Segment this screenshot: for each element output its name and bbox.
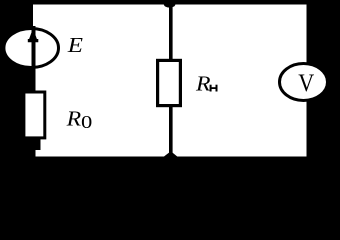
resistor R0 — [24, 92, 45, 138]
wire left branch (through E, down to bottom) — [32, 26, 36, 157]
svg-text:R: R — [195, 72, 211, 96]
source E (circle) — [4, 29, 59, 68]
svg-text:R: R — [66, 107, 82, 131]
resistor Rn — [158, 60, 181, 105]
node top junction — [164, 1, 176, 8]
wire stub below R0 — [33, 138, 41, 150]
voltmeter V (circle) — [280, 64, 328, 101]
wire middle branch — [169, 4, 173, 157]
E arrowhead — [28, 28, 39, 42]
svg-text:E: E — [67, 33, 84, 57]
svg-text:V: V — [298, 70, 314, 97]
svg-text:0: 0 — [81, 112, 92, 132]
node bottom junction — [164, 151, 178, 156]
circuit interior (white panel bounded by outer loop wires) — [33, 5, 307, 157]
